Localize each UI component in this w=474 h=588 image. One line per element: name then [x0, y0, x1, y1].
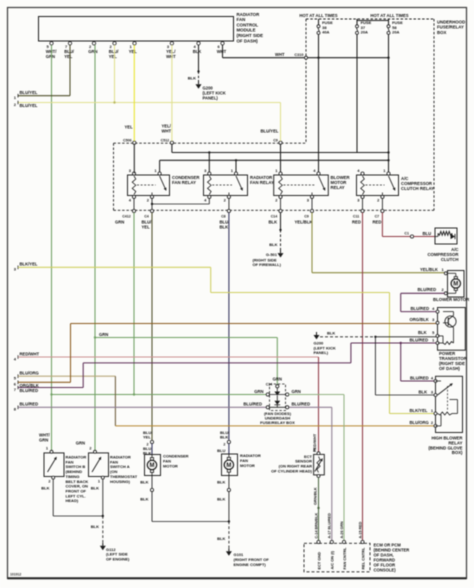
svg-text:OF DASH): OF DASH) [439, 366, 460, 371]
svg-text:RADIATOR: RADIATOR [237, 12, 261, 17]
svg-text:GRN: GRN [76, 441, 85, 446]
svg-text:FAN RELAY: FAN RELAY [250, 180, 274, 185]
svg-text:CONTROL: CONTROL [237, 22, 259, 27]
svg-text:(RIGHT SIDE: (RIGHT SIDE [237, 33, 264, 38]
svg-text:BLK: BLK [217, 497, 225, 502]
svg-text:RELAY: RELAY [331, 185, 345, 190]
svg-text:RED/WHT: RED/WHT [312, 433, 317, 452]
svg-text:C512: C512 [161, 138, 170, 142]
svg-text:OF CYLINDER HEAD): OF CYLINDER HEAD) [271, 469, 313, 474]
svg-text:WHT: WHT [162, 129, 172, 134]
svg-text:BLU/RED: BLU/RED [20, 388, 39, 393]
svg-text:2: 2 [223, 443, 225, 447]
svg-text:BLU/ORG: BLU/ORG [410, 420, 429, 425]
svg-text:101912: 101912 [10, 573, 21, 577]
svg-text:GRN: GRN [39, 438, 48, 443]
svg-text:M: M [453, 282, 458, 288]
svg-text:HOT AT ALL TIMES: HOT AT ALL TIMES [370, 13, 408, 18]
svg-text:BLU/RED: BLU/RED [243, 402, 262, 407]
svg-text:CLUTCH: CLUTCH [441, 257, 459, 262]
svg-text:BLU/RED: BLU/RED [410, 337, 429, 342]
svg-text:MODULE: MODULE [237, 28, 256, 33]
svg-text:MOTOR: MOTOR [163, 463, 178, 468]
svg-text:YEL/BLK: YEL/BLK [295, 220, 313, 225]
svg-text:BLU/YEL: BLU/YEL [261, 129, 279, 134]
svg-text:FAN RELAY: FAN RELAY [172, 180, 196, 185]
svg-text:OF FIREWALL): OF FIREWALL) [253, 262, 282, 267]
svg-text:BLU/RED: BLU/RED [292, 402, 311, 407]
svg-text:ECT GND: ECT GND [316, 552, 321, 570]
svg-text:BLK: BLK [419, 389, 428, 394]
svg-text:YEL: YEL [129, 49, 138, 54]
svg-text:MOTOR: MOTOR [240, 463, 255, 468]
svg-text:PANEL): PANEL) [203, 95, 219, 100]
svg-text:GRN: GRN [292, 389, 301, 394]
svg-text:BLK: BLK [188, 76, 196, 81]
svg-text:A-17 BLU/RED: A-17 BLU/RED [328, 513, 332, 539]
svg-text:BLK: BLK [327, 331, 335, 336]
svg-text:RED: RED [373, 220, 382, 225]
svg-text:FAN: FAN [237, 17, 246, 22]
svg-text:GRN: GRN [254, 389, 263, 394]
svg-text:BLK: BLK [41, 486, 49, 491]
svg-text:20A: 20A [392, 29, 399, 34]
svg-text:C4: C4 [144, 215, 149, 219]
svg-text:BLK: BLK [220, 435, 228, 440]
svg-text:GRN: GRN [46, 54, 55, 59]
svg-text:BLK: BLK [269, 242, 277, 247]
svg-text:BLK: BLK [193, 49, 202, 54]
svg-text:BLK: BLK [269, 220, 278, 225]
svg-text:BLU/YEL: BLU/YEL [20, 90, 38, 95]
svg-text:BLU/RED: BLU/RED [410, 375, 429, 380]
svg-text:OF ENGINE): OF ENGINE) [106, 557, 130, 562]
svg-text:REL CNTRL: REL CNTRL [360, 547, 365, 570]
svg-text:C14: C14 [271, 215, 278, 219]
svg-text:C506: C506 [123, 138, 132, 142]
svg-text:GRN: GRN [273, 376, 282, 381]
svg-text:BLK: BLK [140, 497, 148, 502]
svg-text:BLU/ORG: BLU/ORG [20, 371, 39, 376]
svg-text:C8: C8 [221, 215, 226, 219]
svg-text:YEL: YEL [125, 125, 134, 130]
svg-text:BLOWER MOTOR: BLOWER MOTOR [433, 297, 470, 302]
svg-text:YEL: YEL [143, 435, 151, 440]
svg-text:WHT: WHT [217, 49, 227, 54]
svg-text:HEAD): HEAD) [66, 498, 79, 503]
svg-text:C310: C310 [294, 53, 303, 57]
svg-text:BOX): BOX) [452, 450, 463, 455]
svg-text:BLU/RED: BLU/RED [20, 402, 39, 407]
svg-text:BLK: BLK [140, 480, 148, 485]
svg-text:M: M [150, 463, 155, 469]
svg-text:C14: C14 [266, 383, 273, 387]
svg-text:PANEL): PANEL) [314, 350, 329, 355]
svg-text:OF DASH): OF DASH) [237, 38, 259, 43]
svg-text:BLK: BLK [91, 524, 99, 529]
svg-text:WHT: WHT [166, 54, 176, 59]
svg-text:BLK/YEL: BLK/YEL [410, 408, 428, 413]
svg-text:BLK: BLK [217, 536, 225, 541]
svg-text:C1: C1 [404, 231, 409, 235]
svg-text:BLU/YEL: BLU/YEL [20, 103, 38, 108]
svg-text:A-26 GRN: A-26 GRN [340, 521, 344, 539]
svg-text:C9: C9 [273, 138, 278, 142]
svg-text:BLK: BLK [220, 225, 229, 230]
svg-text:CLUTCH RELAY: CLUTCH RELAY [401, 186, 434, 191]
svg-text:40A: 40A [322, 29, 329, 34]
svg-text:YEL/BLK: YEL/BLK [420, 267, 438, 272]
svg-text:A/C ON (I): A/C ON (I) [330, 550, 335, 569]
svg-text:BLU/RED: BLU/RED [418, 287, 437, 292]
svg-text:CONSOLE): CONSOLE) [374, 568, 397, 573]
svg-text:GRN/BLK: GRN/BLK [313, 487, 318, 505]
svg-text:C11: C11 [353, 215, 359, 219]
svg-text:ORG/BLK: ORG/BLK [410, 317, 429, 322]
svg-text:BLU: BLU [217, 448, 225, 453]
svg-text:BOX: BOX [437, 30, 446, 35]
svg-text:ENGINE COMPT): ENGINE COMPT) [234, 562, 267, 567]
svg-text:RED/WHT: RED/WHT [20, 351, 40, 356]
svg-text:GRN: GRN [99, 332, 108, 337]
svg-text:G-501: G-501 [266, 252, 278, 257]
svg-text:GRN: GRN [88, 49, 97, 54]
svg-text:M: M [226, 463, 231, 469]
svg-text:C7: C7 [375, 215, 380, 219]
svg-text:FUSE/RELAY BOX: FUSE/RELAY BOX [260, 420, 295, 425]
svg-text:GRN: GRN [115, 220, 124, 225]
svg-text:FAN CNTRL: FAN CNTRL [342, 547, 347, 570]
svg-text:A-15 RED: A-15 RED [358, 521, 362, 538]
svg-text:YEL: YEL [142, 225, 151, 230]
svg-text:BLU: BLU [423, 231, 432, 236]
svg-text:BLK: BLK [91, 486, 99, 491]
svg-text:WHT: WHT [275, 52, 285, 57]
svg-text:20A: 20A [361, 29, 368, 34]
svg-text:YEL: YEL [109, 54, 118, 59]
svg-text:BLU/RED: BLU/RED [411, 306, 430, 311]
svg-text:RED: RED [352, 220, 361, 225]
svg-text:YEL: YEL [64, 54, 73, 59]
svg-text:C-14 BRN/BLK: C-14 BRN/BLK [314, 513, 318, 539]
svg-text:HOUSING): HOUSING) [110, 479, 131, 484]
svg-text:BLK/YEL: BLK/YEL [20, 262, 38, 267]
svg-text:BLK: BLK [418, 330, 427, 335]
svg-text:C412: C412 [122, 215, 131, 219]
svg-text:HOT AT ALL TIMES: HOT AT ALL TIMES [299, 13, 337, 18]
svg-text:C9: C9 [304, 215, 309, 219]
svg-text:BLK: BLK [217, 480, 225, 485]
